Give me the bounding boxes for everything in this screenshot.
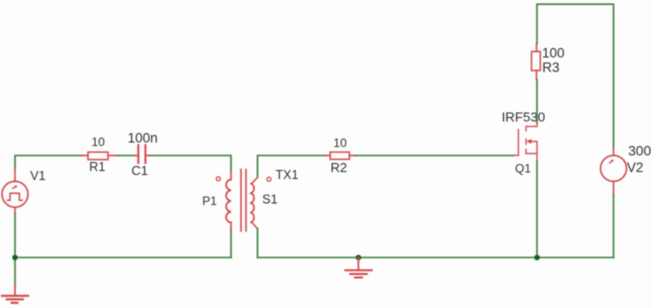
svg-text:R3: R3 <box>542 60 559 75</box>
wire: ground stem left <box>14 258 16 286</box>
gate bar <box>517 130 519 156</box>
body line and arrow <box>531 141 537 153</box>
transformer TX1 primary winding P1 <box>226 180 231 223</box>
svg-text:S1: S1 <box>262 192 277 206</box>
svg-text:V1: V1 <box>30 169 45 183</box>
capacitor C1 <box>135 145 150 163</box>
transformer TX1 secondary pin bottom <box>252 223 257 229</box>
wire: V2 bottom <box>613 195 615 258</box>
resistor R2 <box>325 152 355 159</box>
svg-text:R1: R1 <box>89 160 105 174</box>
wire: R2 to gate <box>355 155 514 157</box>
channel top segment + drain hook <box>526 123 537 131</box>
resistor R3 <box>532 44 541 80</box>
resistor R1 <box>82 152 117 160</box>
wire: secondary bottom <box>257 229 259 258</box>
channel bottom segment + source hook <box>526 149 537 161</box>
wire: MOSFET source to bottom rail <box>536 161 538 258</box>
svg-text:100: 100 <box>542 45 565 60</box>
polarity dot secondary <box>267 177 271 181</box>
svg-text:R2: R2 <box>331 160 348 175</box>
bottom rail right net <box>258 257 614 259</box>
gate pin stub <box>514 154 519 156</box>
wire: C1 to transformer primary top <box>150 156 231 173</box>
svg-text:100n: 100n <box>128 130 158 145</box>
transformer TX1 primary pin top <box>230 172 232 180</box>
wire: R1 to C1 <box>117 155 135 157</box>
MOSFET Q1 IRF530 <box>514 123 538 161</box>
svg-text:10: 10 <box>92 135 106 149</box>
svg-text:P1: P1 <box>202 194 217 208</box>
voltage source V1 (pulse) <box>2 169 28 214</box>
ground G1 left <box>2 285 28 303</box>
wire: drain to R3 <box>536 80 538 123</box>
svg-text:IRF530: IRF530 <box>502 110 546 125</box>
transformer TX1 primary pin bottom <box>230 223 232 230</box>
transformer TX1 secondary winding S1 <box>251 184 254 223</box>
wire: bottom rail left net <box>15 257 231 259</box>
junction node: source to rail <box>534 255 540 261</box>
ground G2 center <box>345 258 371 278</box>
voltage source V2 <box>601 148 627 195</box>
svg-text:V2: V2 <box>627 160 644 175</box>
svg-text:Q1: Q1 <box>515 162 531 176</box>
svg-text:300: 300 <box>628 143 651 158</box>
transformer TX1 secondary pin top <box>252 178 258 184</box>
wire: secondary top to rail <box>258 156 326 178</box>
svg-text:TX1: TX1 <box>276 168 299 182</box>
transformer TX1 core <box>241 170 246 232</box>
channel mid segment <box>525 139 527 144</box>
svg-text:C1: C1 <box>131 163 148 178</box>
svg-text:10: 10 <box>333 136 347 150</box>
polarity dot primary <box>216 177 220 181</box>
junction node: V1 ground junction <box>12 255 18 261</box>
wire: top rail V1 to R1 <box>15 156 82 169</box>
wire: R3 to top rail and over to V2 <box>537 4 614 148</box>
wire: transformer primary bottom <box>230 230 232 258</box>
junction node: center ground <box>356 255 362 261</box>
wire: V1 bottom to ground junction <box>14 213 16 258</box>
